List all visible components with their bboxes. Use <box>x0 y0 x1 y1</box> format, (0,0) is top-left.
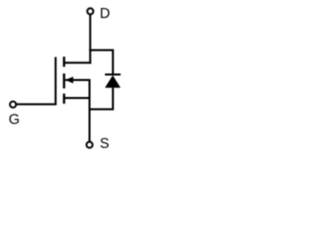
mosfet channel source segment <box>63 94 65 104</box>
gate bar <box>55 57 57 104</box>
wire drain to diode cathode <box>89 50 113 73</box>
wire body to source node <box>65 80 89 141</box>
svg-text:D: D <box>100 6 110 22</box>
terminal G (gate pin circle) <box>10 101 16 107</box>
mosfet body arrow <box>65 77 73 84</box>
wire drain vertical <box>89 15 91 64</box>
wire drain to channel <box>64 62 91 64</box>
svg-text:G: G <box>9 112 20 128</box>
diode triangle (body diode) <box>105 75 121 87</box>
terminal S (source pin circle) <box>86 142 92 148</box>
wire gate horizontal <box>17 103 57 105</box>
diode cathode bar <box>105 74 121 76</box>
wire diode anode to source <box>90 88 113 110</box>
svg-text:S: S <box>100 136 110 152</box>
terminal D (drain pin circle) <box>87 8 93 14</box>
mosfet channel drain segment <box>63 57 65 67</box>
mosfet channel body segment <box>63 74 65 89</box>
wire source to channel <box>64 97 89 99</box>
